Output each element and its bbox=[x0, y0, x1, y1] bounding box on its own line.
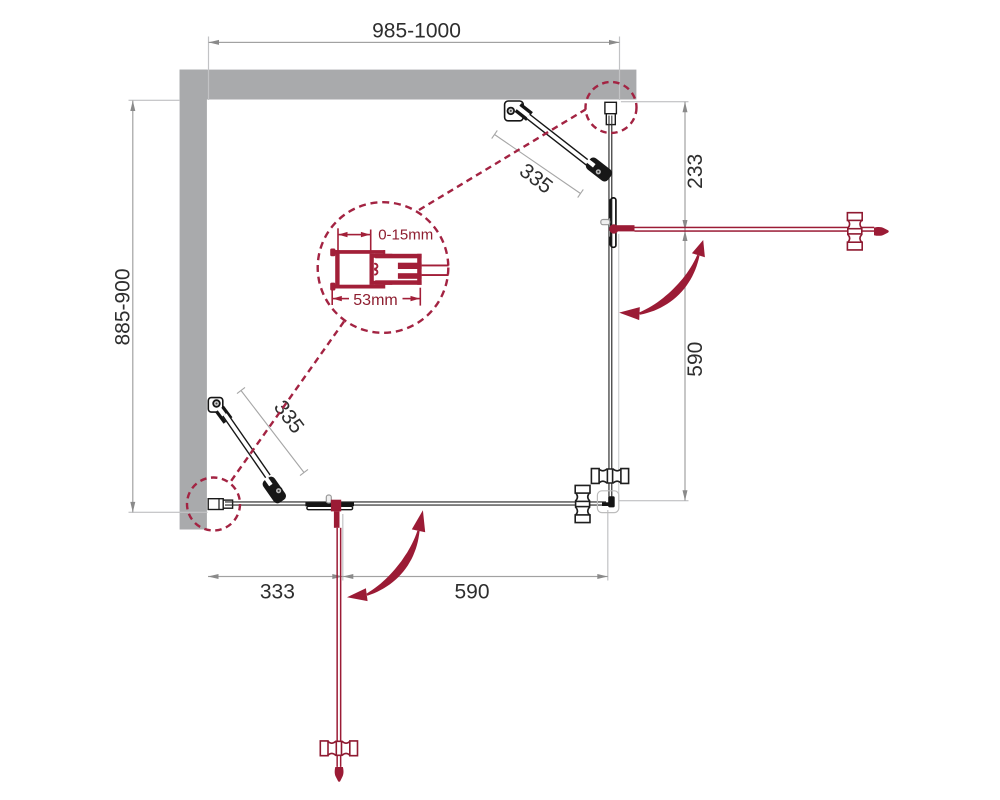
inset adjustable insert profile bbox=[370, 254, 393, 285]
dimension line 885-900 bbox=[132, 101, 133, 513]
dim line 335 top bbox=[492, 130, 584, 197]
inset glass holder profile bbox=[375, 254, 421, 285]
svg-text:985-1000: 985-1000 bbox=[372, 20, 461, 43]
door profile closed bottom (black bar near hinge) bbox=[305, 502, 354, 506]
connector dashed line to top circle bbox=[419, 110, 586, 211]
svg-text:590: 590 bbox=[454, 581, 489, 604]
connector dashed line to bottom circle bbox=[230, 322, 344, 483]
glass clamp top bbox=[583, 155, 614, 184]
wall left (vertical) bbox=[180, 70, 207, 530]
extension line top-left (x=208.5) bbox=[208, 37, 209, 101]
extension line right-upper (y=101.7) bbox=[621, 101, 689, 102]
svg-text:885-900: 885-900 bbox=[112, 268, 135, 345]
dimension line 233/590 right (x=685) bbox=[684, 102, 685, 501]
door bottom open (red) bbox=[331, 500, 342, 767]
swing arc top door (red) bbox=[639, 255, 699, 315]
wall top (horizontal) bbox=[180, 70, 637, 100]
extension line door-edge vertical (x=618.7) bbox=[618, 234, 619, 501]
svg-text:233: 233 bbox=[684, 154, 707, 189]
inset dimension 53mm bbox=[331, 288, 421, 306]
dimension line 333/590 bottom (y=576.5) bbox=[208, 576, 608, 577]
door stop tab bottom bbox=[326, 495, 331, 503]
extension line right-lower (y=500.7) bbox=[619, 500, 689, 501]
end cap bottom door (red) bbox=[335, 767, 344, 782]
inset glass double line bbox=[422, 265, 449, 267]
support bar bottom (wall to glass) bbox=[208, 398, 268, 477]
extension line left-top (y=100.3) bbox=[129, 100, 181, 101]
corner connector square bbox=[597, 491, 618, 513]
inset insert clips bbox=[374, 264, 377, 275]
knob bottom door (red) bbox=[320, 741, 357, 756]
dim line 335 bottom bbox=[237, 387, 308, 475]
knob right door (red) bbox=[847, 213, 862, 250]
knob closed door bottom (black, on horizontal glass) bbox=[575, 485, 590, 522]
pivot top door (red) bbox=[609, 224, 618, 233]
inset dimension 0-15 bbox=[337, 228, 371, 254]
end cap right door (red) bbox=[874, 227, 889, 236]
detail circle bottom-left (dashed) bbox=[187, 478, 240, 531]
extension line left-bottom (y=512.3) bbox=[129, 512, 208, 513]
wall profile top-right bbox=[605, 102, 617, 124]
glass panel bottom (horizontal double line) bbox=[227, 501, 606, 502]
wall profile bottom-left bbox=[208, 499, 232, 510]
glass clamp bottom bbox=[260, 474, 288, 505]
extension line bottom-right (x=607.8) bbox=[607, 510, 608, 581]
support bar top (wall to glass) bbox=[505, 101, 589, 164]
extension line top-right (x=619.5) bbox=[619, 37, 620, 101]
extension line bottom-mid (x=342.8) bbox=[342, 514, 343, 581]
svg-text:590: 590 bbox=[684, 342, 707, 377]
detail circle top-right (dashed) bbox=[586, 82, 637, 133]
swing arc bottom door (red) bbox=[366, 531, 419, 596]
glass panel right (vertical double line) bbox=[608, 125, 609, 497]
hinge top door (black leaves on glass) bbox=[609, 198, 616, 247]
svg-text:0-15mm: 0-15mm bbox=[378, 227, 433, 244]
door right open (red) bbox=[616, 225, 874, 232]
door stop tab top bbox=[601, 220, 610, 225]
detail circle inset (dashed) bbox=[318, 202, 449, 333]
corner black bar on bottom glass bbox=[602, 502, 609, 506]
dimension line 985-1000 bbox=[209, 42, 620, 43]
corner pivot block bbox=[608, 496, 615, 507]
inset wall U-profile bbox=[330, 249, 385, 291]
svg-text:53mm: 53mm bbox=[353, 292, 397, 309]
knob closed door right (black, on vertical glass) bbox=[591, 469, 628, 484]
svg-text:333: 333 bbox=[260, 581, 295, 604]
